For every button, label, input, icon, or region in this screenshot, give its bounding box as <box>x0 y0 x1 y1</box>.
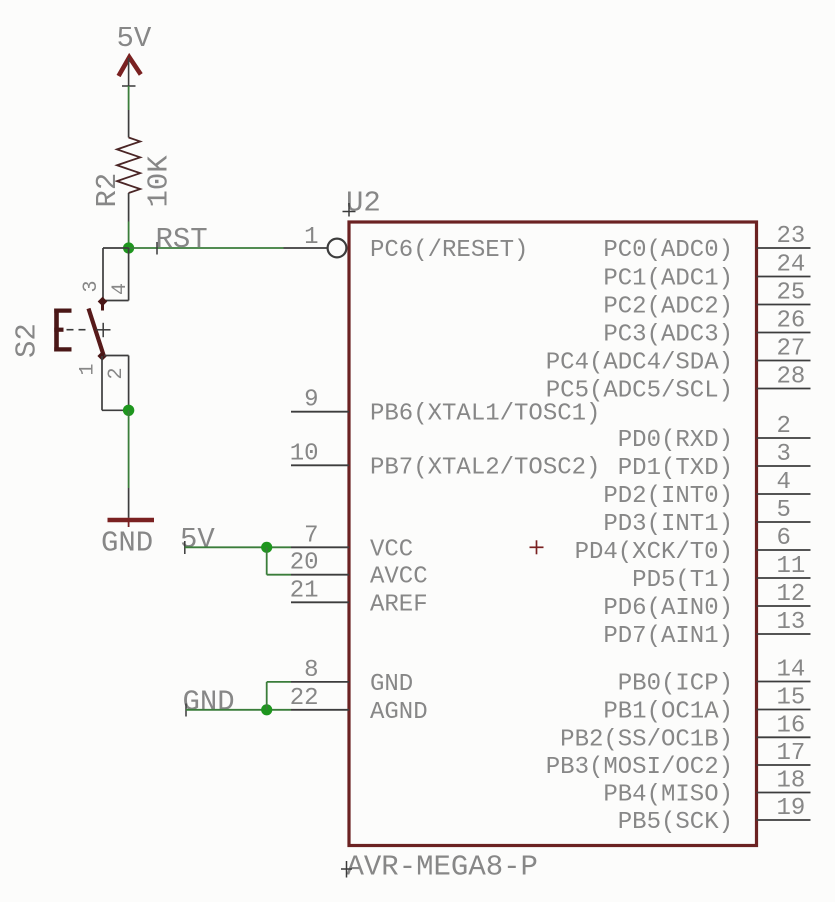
svg-text:12: 12 <box>777 581 806 608</box>
pin 3 PD1(TXD) <box>618 441 811 482</box>
pin 21 AREF <box>290 577 428 618</box>
svg-text:PB3(MOSI/OC2): PB3(MOSI/OC2) <box>546 754 733 781</box>
svg-text:PD5(T1): PD5(T1) <box>632 567 733 594</box>
label U2 <box>343 187 381 220</box>
svg-text:7: 7 <box>304 522 318 549</box>
svg-text:S2: S2 <box>11 323 44 358</box>
pin 5 PD3(INT1) <box>603 497 810 538</box>
svg-text:5V: 5V <box>117 22 152 55</box>
svg-text:PC6(/RESET): PC6(/RESET) <box>370 237 528 264</box>
ground symbol GND <box>101 488 154 560</box>
label 10K <box>143 155 176 208</box>
part origin cross U2 <box>530 540 544 554</box>
svg-text:22: 22 <box>290 685 319 712</box>
svg-text:PC5(ADC5/SCL): PC5(ADC5/SCL) <box>546 378 733 405</box>
wire 5V to VCC <box>185 546 291 548</box>
pin 27 PC4(ADC4/SDA) <box>546 336 811 377</box>
pin 11 PD5(T1) <box>632 553 810 594</box>
svg-text:GND: GND <box>183 686 235 719</box>
svg-text:18: 18 <box>777 768 806 795</box>
svg-text:13: 13 <box>777 609 806 636</box>
pin 2 PD0(RXD) <box>618 413 811 454</box>
svg-text:PD1(TXD): PD1(TXD) <box>618 455 733 482</box>
svg-text:10: 10 <box>290 440 319 467</box>
svg-text:U2: U2 <box>346 187 381 220</box>
svg-text:20: 20 <box>290 550 319 577</box>
switch S2 actuator <box>54 309 71 352</box>
wire GND to AGND <box>186 709 291 711</box>
svg-text:21: 21 <box>290 577 319 604</box>
wire R2 to RST node <box>128 222 130 249</box>
svg-text:17: 17 <box>777 740 806 767</box>
svg-text:VCC: VCC <box>370 536 413 563</box>
svg-text:PD4(XCK/T0): PD4(XCK/T0) <box>575 539 733 566</box>
pin 9 PB6(XTAL1/TOSC1) <box>291 387 600 428</box>
svg-text:PB7(XTAL2/TOSC2): PB7(XTAL2/TOSC2) <box>370 454 600 481</box>
pin 23 PC0(ADC0) <box>603 223 810 264</box>
pin 25 PC2(ADC2) <box>603 280 810 321</box>
svg-text:4: 4 <box>109 283 132 295</box>
svg-text:8: 8 <box>304 657 318 684</box>
svg-text:PB0(ICP): PB0(ICP) <box>618 671 733 698</box>
svg-text:19: 19 <box>777 795 806 822</box>
pin 28 PC5(ADC5/SCL) <box>546 364 811 405</box>
svg-text:PB5(SCK): PB5(SCK) <box>618 809 733 836</box>
svg-text:25: 25 <box>777 280 806 307</box>
svg-text:2: 2 <box>777 413 791 440</box>
svg-text:PB4(MISO): PB4(MISO) <box>603 782 733 809</box>
node RST junction <box>123 242 134 253</box>
node VCC junction <box>261 542 272 553</box>
svg-text:PB1(OC1A): PB1(OC1A) <box>603 699 733 726</box>
svg-text:3: 3 <box>80 280 103 292</box>
pin 24 PC1(ADC1) <box>603 252 810 293</box>
op IC U2 AVR-MEGA8-P body <box>349 222 757 846</box>
svg-text:PC4(ADC4/SDA): PC4(ADC4/SDA) <box>546 350 733 377</box>
svg-text:PD2(INT0): PD2(INT0) <box>603 483 733 510</box>
switch S2 lever <box>89 309 104 356</box>
svg-text:9: 9 <box>304 387 318 414</box>
pin 4 PD2(INT0) <box>603 469 810 510</box>
supply GND (at AGND) <box>183 686 235 719</box>
svg-text:3: 3 <box>777 441 791 468</box>
svg-text:11: 11 <box>777 553 806 580</box>
svg-text:23: 23 <box>777 223 806 250</box>
pin 13 PD7(AIN1) <box>603 609 810 650</box>
svg-text:RST: RST <box>156 223 208 256</box>
svg-text:GND: GND <box>101 527 153 560</box>
svg-text:PC0(ADC0): PC0(ADC0) <box>603 237 733 264</box>
svg-text:AVCC: AVCC <box>370 564 428 591</box>
pin 22 AGND <box>290 685 428 726</box>
wire 5V to R2 <box>128 86 130 110</box>
svg-text:PD0(RXD): PD0(RXD) <box>618 427 733 454</box>
pin label 4 <box>109 283 132 295</box>
pin 19 PB5(SCK) <box>618 795 811 836</box>
svg-text:PB6(XTAL1/TOSC1): PB6(XTAL1/TOSC1) <box>370 401 600 428</box>
svg-text:28: 28 <box>777 364 806 391</box>
svg-text:PD6(AIN0): PD6(AIN0) <box>603 595 733 622</box>
svg-text:R2: R2 <box>91 173 124 208</box>
wire RST net <box>129 247 284 249</box>
svg-text:AREF: AREF <box>370 591 428 618</box>
pin 6 PD4(XCK/T0) <box>575 525 811 566</box>
pin 20 AVCC <box>290 550 428 591</box>
svg-text:2: 2 <box>105 367 128 379</box>
svg-text:PD7(AIN1): PD7(AIN1) <box>603 623 733 650</box>
pin 26 PC3(ADC3) <box>603 308 810 349</box>
svg-text:27: 27 <box>777 336 806 363</box>
svg-text:AGND: AGND <box>370 699 428 726</box>
svg-text:14: 14 <box>777 657 806 684</box>
svg-text:6: 6 <box>777 525 791 552</box>
switch S2 dashed link <box>67 329 86 331</box>
wire S2 to GND <box>128 410 130 488</box>
label R2 <box>91 173 124 208</box>
pin 17 PB3(MOSI/OC2) <box>546 740 811 781</box>
pin 15 PB1(OC1A) <box>603 685 810 726</box>
svg-text:AVR-MEGA8-P: AVR-MEGA8-P <box>347 851 538 884</box>
pin 7 VCC <box>291 522 413 563</box>
pin 12 PD6(AIN0) <box>603 581 810 622</box>
pin 8 GND <box>291 657 413 698</box>
pin 14 PB0(ICP) <box>618 657 811 698</box>
wire junction to AVCC <box>267 547 291 574</box>
svg-text:1: 1 <box>77 363 100 375</box>
switch S2 pin 4 wire <box>104 248 129 301</box>
switch S2 bottom contact <box>97 351 107 361</box>
pin label 1 <box>77 363 100 375</box>
svg-text:24: 24 <box>777 252 806 279</box>
svg-text:GND: GND <box>370 671 413 698</box>
net label RST <box>156 223 208 256</box>
svg-text:PC2(ADC2): PC2(ADC2) <box>603 294 733 321</box>
pin label 2 <box>105 367 128 379</box>
pin 1 PC6(/RESET) <box>284 224 529 264</box>
pin label 3 <box>80 280 103 292</box>
switch S2 pin 3 wire <box>103 248 129 301</box>
svg-text:PC3(ADC3): PC3(ADC3) <box>603 322 733 349</box>
node GND junction <box>261 704 272 715</box>
supply 5V (top) <box>117 22 152 86</box>
switch S2 top contact <box>98 297 108 311</box>
svg-text:26: 26 <box>777 308 806 335</box>
svg-text:15: 15 <box>777 685 806 712</box>
label AVR-MEGA8-P <box>341 851 538 884</box>
svg-text:PB2(SS/OC1B): PB2(SS/OC1B) <box>560 726 733 753</box>
wire junction to GND pin 8 <box>267 682 291 710</box>
svg-text:5: 5 <box>777 497 791 524</box>
resistor R2 10K <box>117 110 140 222</box>
switch S2 center cross <box>96 323 111 337</box>
svg-text:1: 1 <box>304 224 318 251</box>
svg-text:PD3(INT1): PD3(INT1) <box>603 511 733 538</box>
pin 18 PB4(MISO) <box>603 768 810 809</box>
node GND junction below S2 <box>123 405 134 416</box>
pin 10 PB7(XTAL2/TOSC2) <box>290 440 601 481</box>
switch S2 pin 2 wire <box>104 356 129 411</box>
label S2 <box>11 323 44 358</box>
svg-text:16: 16 <box>777 712 806 739</box>
supply 5V (at VCC) <box>180 523 215 556</box>
switch S2 pin 1 wire <box>102 356 129 410</box>
svg-text:PC1(ADC1): PC1(ADC1) <box>603 266 733 293</box>
svg-text:10K: 10K <box>143 155 176 208</box>
pin 16 PB2(SS/OC1B) <box>560 712 810 753</box>
svg-text:4: 4 <box>777 469 791 496</box>
